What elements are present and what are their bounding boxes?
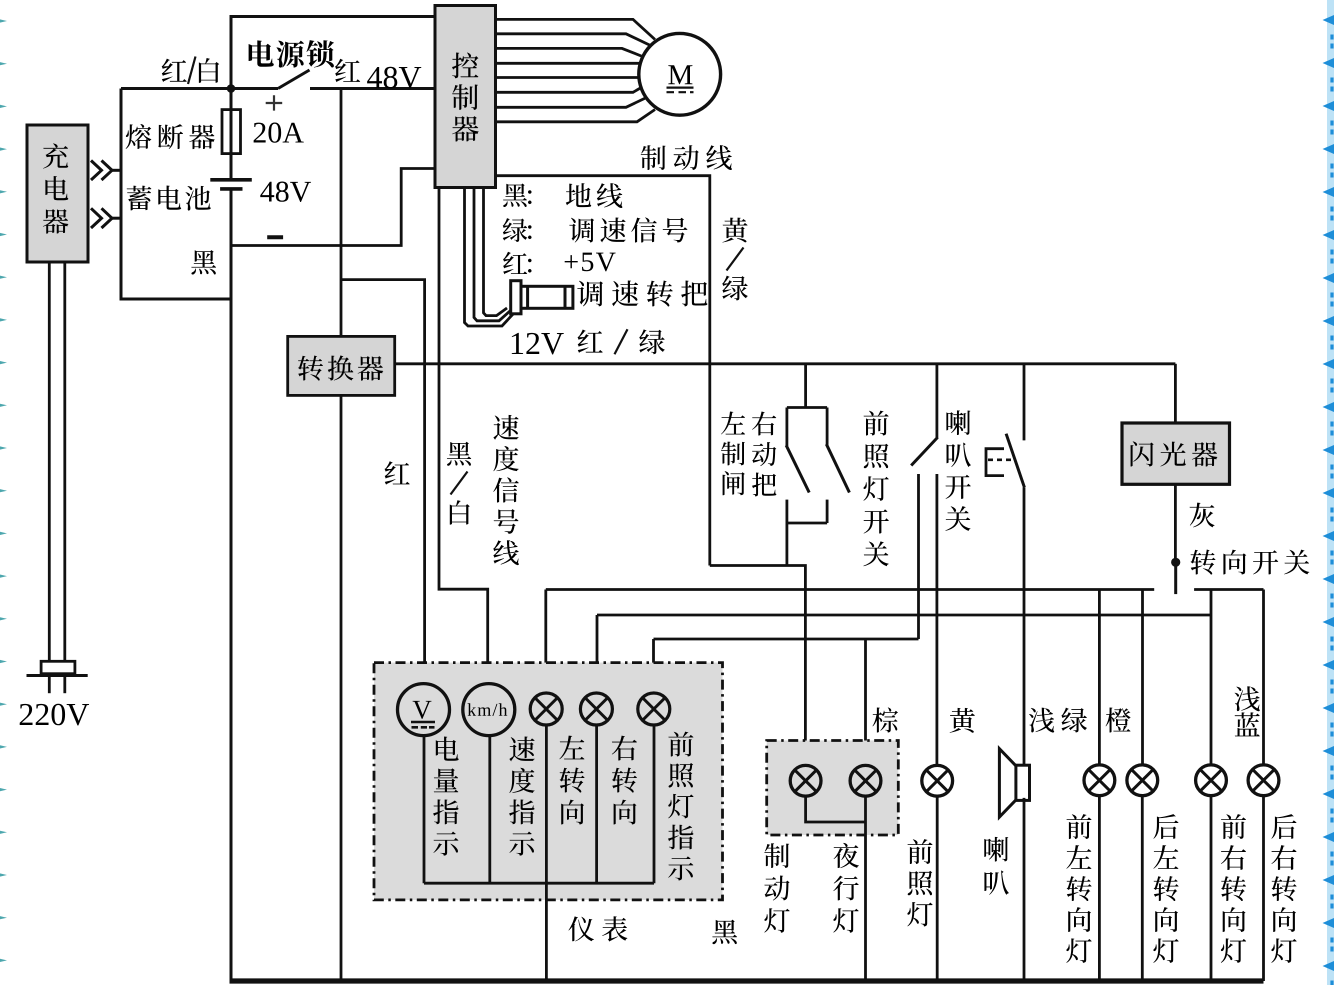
brake lever switches: feed from bus — [804, 364, 807, 408]
label - (minus) — [267, 235, 283, 239]
wire battery negative bus to controller — [231, 169, 435, 246]
label 前右转向灯 — [1221, 814, 1246, 963]
ground bus (black) — [230, 978, 1264, 983]
label 转换器 — [298, 355, 383, 380]
label 红 (keyswitch wire) — [335, 59, 360, 82]
label 黑 (battery negative wire) — [191, 250, 216, 274]
label 后左转向灯 — [1153, 814, 1178, 963]
label 绿：调速信号 — [503, 218, 532, 242]
label 20A — [254, 123, 304, 143]
label 左转向 — [559, 736, 584, 825]
label 橙 — [1106, 707, 1131, 732]
charger output cable (two wires) — [48, 262, 51, 661]
wire lamp bottoms joined + ground — [806, 795, 866, 822]
wire key bus y=88.5 switch to controller — [310, 87, 435, 90]
horn switch blade — [1006, 434, 1024, 488]
turn switch blade stub — [1174, 562, 1177, 594]
brake switches top bar — [787, 406, 827, 409]
decorative left page-edge ticks — [0, 19, 7, 962]
label 右转向 — [612, 736, 637, 825]
label 制动灯 — [764, 843, 789, 932]
flasher box 闪光器 — [1174, 364, 1177, 423]
label 熔断器 — [126, 124, 215, 149]
wire flasher to turn switch — [1174, 484, 1177, 562]
label 前照灯 — [907, 839, 932, 926]
label 48V (battery) — [260, 182, 311, 202]
night lamp 夜行灯 — [850, 765, 881, 796]
label M with underline — [668, 65, 692, 84]
voltmeter V circle 电量指示 — [398, 684, 450, 736]
brake/night lamp box (dash-dot) — [767, 741, 899, 836]
wire headlight indicator bus y=639 — [654, 638, 919, 641]
label 调速转把 — [577, 280, 707, 306]
turn switch right contact bar — [1194, 588, 1263, 591]
wire brake line from controller (top edge + right vertical) 制动线 — [496, 176, 710, 566]
label 前照灯指示 — [668, 732, 693, 881]
brake switches contacts + output — [786, 500, 789, 523]
label 220V — [20, 704, 89, 726]
label 蓄电池 — [127, 186, 211, 211]
wire left-turn bus y=589.5 — [546, 588, 1154, 591]
label + — [266, 95, 283, 110]
label 前左转向灯 — [1066, 814, 1091, 963]
label 夜行灯 — [833, 843, 859, 933]
fuse 熔断器 20A — [222, 110, 241, 154]
label 红：+5V — [503, 252, 532, 275]
label 浅绿 — [1029, 708, 1087, 733]
label 制动线 — [641, 145, 732, 170]
wire right-turn bus y=613.5 — [597, 614, 1211, 617]
label 前照灯开关 — [863, 411, 888, 567]
node battery positive junction — [227, 84, 236, 93]
battery 蓄电池 48V plates — [210, 178, 252, 182]
wire battery negative down to ground bus — [230, 189, 233, 981]
label 充电器 — [43, 143, 69, 233]
label 黄/绿 (brake wire colors) — [722, 218, 748, 301]
wire speed signal from controller down — [439, 188, 488, 685]
front-right turn lamp 前右转向灯 — [1196, 765, 1227, 796]
controller box 控制器 — [435, 6, 496, 188]
left brake switch blade — [786, 408, 789, 447]
wire horn switch output to horn — [1023, 487, 1026, 764]
label 仪表 — [568, 916, 627, 941]
label 灰 — [1190, 503, 1215, 528]
right brake switch blade — [826, 408, 829, 445]
headlight switch outputs — [917, 474, 920, 639]
rear-right turn lamp 后右转向灯 — [1248, 765, 1279, 796]
label 黑 (ground bus) — [712, 920, 737, 944]
wire brake output to brake lamp — [710, 566, 806, 768]
motor M circle — [639, 33, 721, 115]
headlight lamp 前照灯 — [922, 765, 953, 796]
label 转向开关 — [1191, 550, 1310, 575]
label 左制闸 — [721, 412, 745, 496]
wire 48V feed to converter — [340, 89, 343, 337]
brake lamp 制动灯 — [790, 765, 821, 796]
label 后右转向灯 — [1271, 814, 1296, 963]
headlight switch 前照灯开关: feed — [936, 364, 939, 438]
indicator lamp headlight — [638, 693, 670, 725]
headlight switch blade — [911, 437, 937, 465]
label 棕 — [873, 707, 898, 732]
label 黑：地线 — [503, 184, 531, 208]
label 闪光器 — [1131, 441, 1218, 466]
horn switch push button bracket — [986, 449, 1004, 476]
label 48V (top) — [367, 67, 421, 89]
wires controller to throttle (3 bundled) — [465, 188, 514, 327]
indicator lamp left-turn — [530, 693, 562, 725]
wire red branch to instrument voltmeter — [341, 280, 425, 685]
label 浅蓝 — [1235, 686, 1260, 736]
instrument internal wiring — [423, 735, 426, 883]
charger box 充电器 — [27, 125, 88, 262]
label 速度信号线 — [493, 415, 519, 565]
node turn switch common — [1171, 558, 1180, 567]
wire 12V distribution bus y=362 — [395, 362, 1176, 365]
rear-left turn lamp 后左转向灯 — [1127, 765, 1158, 796]
converter box 转换器 48V-12V — [288, 336, 395, 395]
label 红 (voltmeter wire) — [385, 461, 410, 484]
wire battery positive vertical (node to fuse to plate) — [230, 89, 233, 180]
wire instrument ground drop — [545, 883, 548, 981]
wire converter ground down — [340, 395, 343, 981]
220V mains plug — [41, 661, 75, 673]
wire key bus y=88.5 left of switch — [121, 87, 278, 90]
power lock switch 电源锁 blade — [278, 70, 310, 89]
decorative right page-edge tear pattern — [1323, 0, 1334, 990]
label 控制器 — [452, 53, 479, 142]
label 喇叭 — [984, 837, 1008, 895]
horn switch 喇叭开关: feed — [1023, 364, 1026, 441]
label 喇叭开关 — [945, 410, 971, 531]
wire night lamp feed — [864, 639, 867, 767]
instrument panel box 仪表 (dash-dot) — [374, 663, 723, 900]
connector chevrons charger-to-battery (lower) — [91, 208, 102, 228]
wire battery loop: left vertical + bottom — [121, 89, 231, 300]
label 电量指示 — [433, 737, 459, 856]
front-left turn lamp 前左转向灯 — [1084, 765, 1115, 796]
throttle 调速转把 symbol — [511, 281, 521, 314]
label 黄 — [950, 708, 975, 733]
wire top bus B+ to controller (y=16.5) — [231, 17, 435, 89]
label 黑/白 — [447, 442, 471, 525]
connector chevrons charger-to-battery (upper) — [91, 161, 102, 181]
horn 喇叭 speaker symbol — [1016, 765, 1030, 800]
speedometer km/h circle 速度指示 — [463, 684, 515, 736]
label 12V 红 / 绿 — [512, 333, 564, 355]
label 右动把 — [752, 412, 776, 497]
label 红/白 — [162, 59, 187, 82]
wire right-turn lamp feeds — [596, 615, 599, 693]
label 电源锁 — [249, 40, 334, 68]
indicator lamp right-turn — [580, 693, 612, 725]
label 速度指示 — [509, 736, 535, 855]
wire left-turn lamp feeds from bus — [544, 590, 547, 694]
motor wires from controller (8 phase/hall lines) — [496, 19, 655, 39]
